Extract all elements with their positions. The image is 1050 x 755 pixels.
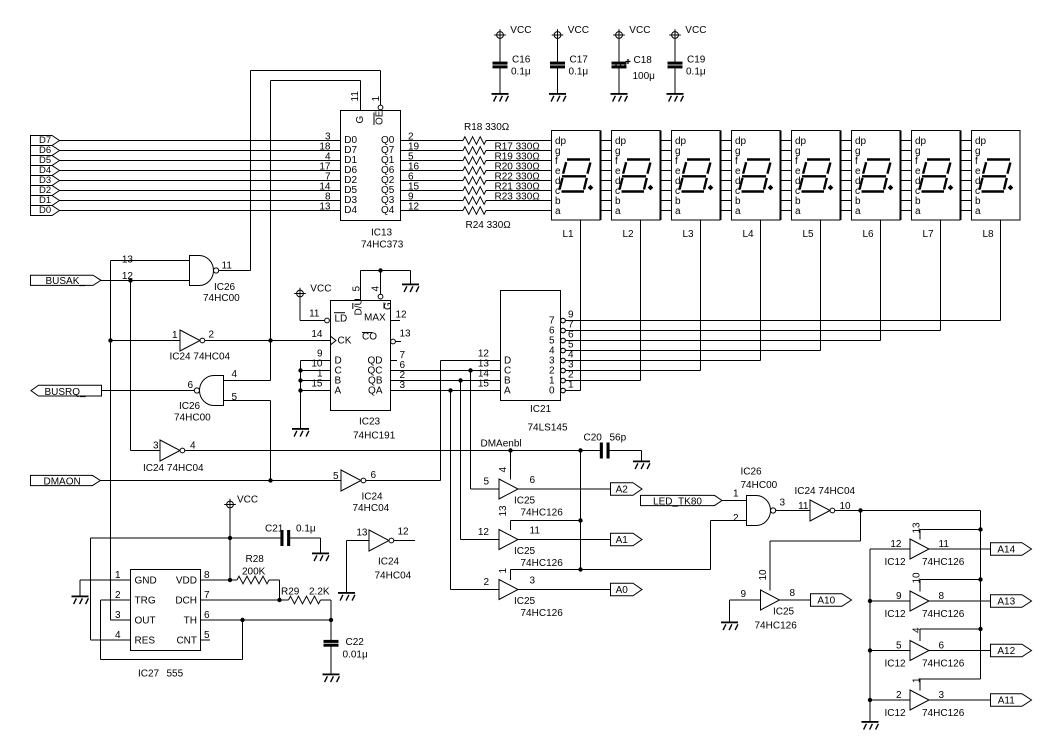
svg-text:OE: OE bbox=[374, 110, 385, 125]
svg-text:IC12: IC12 bbox=[885, 659, 907, 670]
svg-text:D/U: D/U bbox=[354, 298, 365, 315]
svg-text:VCC: VCC bbox=[510, 25, 531, 36]
svg-text:12: 12 bbox=[122, 271, 134, 282]
svg-text:C17: C17 bbox=[570, 55, 589, 66]
svg-text:74HC126: 74HC126 bbox=[521, 558, 564, 569]
svg-text:C19: C19 bbox=[687, 55, 706, 66]
svg-text:4: 4 bbox=[115, 630, 121, 641]
svg-text:9: 9 bbox=[896, 591, 902, 602]
svg-text:555: 555 bbox=[167, 669, 184, 680]
svg-text:CNT: CNT bbox=[176, 636, 197, 647]
svg-text:12: 12 bbox=[890, 539, 902, 550]
svg-text:VCC: VCC bbox=[568, 25, 589, 36]
svg-text:4: 4 bbox=[498, 467, 509, 473]
svg-text:13: 13 bbox=[319, 201, 331, 212]
svg-text:IC25: IC25 bbox=[514, 546, 536, 557]
svg-text:IC24 74HC04: IC24 74HC04 bbox=[170, 352, 231, 363]
svg-text:IC12: IC12 bbox=[885, 557, 907, 568]
svg-text:5: 5 bbox=[232, 392, 238, 403]
svg-text:2: 2 bbox=[733, 513, 739, 524]
svg-text:VCC: VCC bbox=[237, 495, 258, 506]
svg-text:12: 12 bbox=[396, 310, 408, 321]
svg-text:TRG: TRG bbox=[135, 596, 156, 607]
svg-text:D0: D0 bbox=[39, 205, 51, 216]
svg-text:13: 13 bbox=[498, 505, 509, 517]
svg-text:L6: L6 bbox=[863, 229, 875, 240]
svg-text:6: 6 bbox=[371, 470, 377, 481]
svg-text:15: 15 bbox=[311, 379, 323, 390]
svg-text:4: 4 bbox=[911, 627, 922, 633]
svg-text:74HC191: 74HC191 bbox=[353, 431, 396, 442]
svg-text:74HC126: 74HC126 bbox=[755, 621, 798, 632]
svg-text:G: G bbox=[355, 116, 366, 124]
svg-text:A1: A1 bbox=[616, 535, 629, 546]
svg-text:5: 5 bbox=[352, 286, 363, 292]
svg-text:L1: L1 bbox=[563, 229, 575, 240]
svg-text:74HC373: 74HC373 bbox=[361, 240, 404, 251]
svg-text:11: 11 bbox=[309, 309, 320, 320]
svg-text:74HC126: 74HC126 bbox=[922, 659, 965, 670]
svg-text:14: 14 bbox=[311, 329, 323, 340]
svg-text:13: 13 bbox=[356, 528, 368, 539]
svg-text:IC27: IC27 bbox=[138, 669, 160, 680]
svg-text:IC13: IC13 bbox=[371, 228, 393, 239]
svg-text:L3: L3 bbox=[683, 229, 695, 240]
svg-text:L4: L4 bbox=[743, 229, 755, 240]
svg-text:12: 12 bbox=[408, 201, 420, 212]
svg-text:1: 1 bbox=[371, 96, 382, 102]
svg-text:74HC126: 74HC126 bbox=[521, 508, 564, 519]
svg-text:8: 8 bbox=[939, 591, 945, 602]
svg-text:2.2K: 2.2K bbox=[309, 587, 330, 598]
svg-text:LD: LD bbox=[335, 314, 348, 325]
svg-text:R24 330Ω: R24 330Ω bbox=[466, 220, 512, 231]
svg-text:IC24 74HC04: IC24 74HC04 bbox=[795, 486, 856, 497]
svg-text:10: 10 bbox=[840, 501, 852, 512]
svg-text:TH: TH bbox=[184, 616, 197, 627]
svg-text:12: 12 bbox=[478, 527, 490, 538]
svg-text:A10: A10 bbox=[817, 596, 835, 607]
svg-text:74HC04: 74HC04 bbox=[353, 503, 390, 514]
svg-text:A13: A13 bbox=[997, 597, 1015, 608]
svg-text:2: 2 bbox=[115, 590, 121, 601]
svg-text:74HC126: 74HC126 bbox=[922, 708, 965, 719]
svg-text:A2: A2 bbox=[616, 485, 629, 496]
svg-text:VCC: VCC bbox=[310, 283, 331, 294]
svg-text:L7: L7 bbox=[923, 229, 935, 240]
svg-text:4: 4 bbox=[371, 286, 382, 292]
svg-text:5: 5 bbox=[483, 477, 489, 488]
svg-text:IC26: IC26 bbox=[214, 282, 236, 293]
svg-text:3: 3 bbox=[115, 610, 121, 621]
svg-text:1: 1 bbox=[911, 677, 922, 683]
svg-text:7: 7 bbox=[204, 590, 210, 601]
svg-text:6: 6 bbox=[530, 475, 536, 486]
svg-text:0: 0 bbox=[549, 386, 555, 397]
svg-text:10: 10 bbox=[911, 572, 922, 584]
svg-text:IC12: IC12 bbox=[885, 708, 907, 719]
svg-text:3: 3 bbox=[153, 441, 159, 452]
svg-text:15: 15 bbox=[478, 379, 490, 390]
svg-text:100μ: 100μ bbox=[633, 71, 656, 82]
svg-text:GND: GND bbox=[135, 576, 157, 587]
svg-text:6: 6 bbox=[187, 380, 193, 391]
svg-text:QA: QA bbox=[368, 386, 383, 397]
svg-text:74HC126: 74HC126 bbox=[521, 608, 564, 619]
svg-text:74HC00: 74HC00 bbox=[174, 413, 211, 424]
svg-text:6: 6 bbox=[939, 641, 945, 652]
svg-text:A11: A11 bbox=[998, 696, 1015, 707]
svg-text:74HC04: 74HC04 bbox=[375, 571, 412, 582]
svg-text:DMAenbl: DMAenbl bbox=[481, 439, 522, 450]
svg-text:VCC: VCC bbox=[629, 25, 650, 36]
svg-text:2: 2 bbox=[209, 330, 215, 341]
svg-text:L2: L2 bbox=[623, 229, 635, 240]
svg-text:L8: L8 bbox=[983, 229, 995, 240]
svg-text:DMAON: DMAON bbox=[44, 477, 81, 488]
svg-text:13: 13 bbox=[911, 522, 922, 534]
svg-text:R29: R29 bbox=[281, 587, 300, 598]
svg-text:74HC126: 74HC126 bbox=[922, 609, 965, 620]
svg-text:0.1μ: 0.1μ bbox=[569, 67, 589, 78]
svg-text:4: 4 bbox=[190, 441, 196, 452]
svg-text:1: 1 bbox=[498, 568, 509, 574]
svg-text:MAX: MAX bbox=[364, 313, 386, 324]
svg-text:5: 5 bbox=[333, 471, 339, 482]
svg-text:BUSAK_: BUSAK_ bbox=[46, 276, 86, 287]
svg-text:LED_TK80: LED_TK80 bbox=[653, 496, 702, 507]
svg-text:IC25: IC25 bbox=[514, 496, 536, 507]
svg-text:11: 11 bbox=[530, 526, 541, 537]
svg-text:CK: CK bbox=[338, 336, 352, 347]
svg-text:IC24: IC24 bbox=[378, 557, 400, 568]
svg-text:74HC00: 74HC00 bbox=[203, 293, 240, 304]
svg-text:12: 12 bbox=[398, 527, 410, 538]
svg-text:1: 1 bbox=[568, 379, 574, 390]
svg-text:A: A bbox=[335, 386, 342, 397]
svg-text:9: 9 bbox=[740, 589, 746, 600]
svg-text:C16: C16 bbox=[512, 55, 531, 66]
svg-text:Q4: Q4 bbox=[381, 205, 395, 216]
svg-text:1: 1 bbox=[115, 570, 121, 581]
svg-text:11: 11 bbox=[350, 91, 361, 102]
svg-text:11: 11 bbox=[222, 261, 233, 272]
svg-text:11: 11 bbox=[798, 501, 809, 512]
svg-text:IC25: IC25 bbox=[773, 607, 795, 618]
svg-text:L5: L5 bbox=[803, 229, 815, 240]
svg-text:0.1μ: 0.1μ bbox=[296, 524, 316, 535]
svg-text:IC26: IC26 bbox=[179, 401, 201, 412]
svg-text:0.1μ: 0.1μ bbox=[686, 67, 706, 78]
svg-text:13: 13 bbox=[400, 329, 412, 340]
svg-text:C21: C21 bbox=[265, 524, 284, 535]
svg-text:74LS145: 74LS145 bbox=[528, 423, 568, 434]
svg-text:0.01μ: 0.01μ bbox=[343, 650, 368, 661]
svg-text:RES: RES bbox=[135, 636, 156, 647]
svg-text:G: G bbox=[383, 302, 394, 310]
svg-text:IC25: IC25 bbox=[514, 596, 536, 607]
svg-text:A12: A12 bbox=[997, 646, 1015, 657]
svg-text:6: 6 bbox=[204, 610, 210, 621]
svg-text:4: 4 bbox=[232, 369, 238, 380]
svg-text:3: 3 bbox=[780, 498, 786, 509]
svg-text:VCC: VCC bbox=[685, 25, 706, 36]
svg-text:IC26: IC26 bbox=[741, 467, 763, 478]
svg-text:CO: CO bbox=[362, 332, 377, 343]
svg-text:A0: A0 bbox=[616, 585, 629, 596]
svg-text:10: 10 bbox=[758, 569, 769, 581]
svg-text:IC24: IC24 bbox=[362, 492, 384, 503]
svg-text:5: 5 bbox=[896, 641, 902, 652]
svg-text:C18: C18 bbox=[634, 55, 653, 66]
svg-text:R28: R28 bbox=[246, 554, 265, 565]
svg-text:2: 2 bbox=[896, 690, 902, 701]
svg-text:A14: A14 bbox=[997, 545, 1015, 556]
svg-text:C20: C20 bbox=[584, 433, 603, 444]
svg-text:IC12: IC12 bbox=[885, 609, 907, 620]
svg-text:A: A bbox=[504, 386, 511, 397]
svg-text:DCH: DCH bbox=[175, 596, 197, 607]
svg-text:74HC00: 74HC00 bbox=[741, 480, 778, 491]
svg-text:200K: 200K bbox=[242, 567, 266, 578]
svg-text:R18 330Ω: R18 330Ω bbox=[464, 122, 510, 133]
svg-text:3: 3 bbox=[400, 380, 406, 391]
svg-text:13: 13 bbox=[122, 255, 134, 266]
svg-text:11: 11 bbox=[939, 539, 950, 550]
svg-text:1: 1 bbox=[172, 330, 178, 341]
svg-text:8: 8 bbox=[790, 588, 796, 599]
svg-text:VDD: VDD bbox=[176, 576, 197, 587]
svg-text:R23 330Ω: R23 330Ω bbox=[495, 192, 541, 203]
svg-text:5: 5 bbox=[204, 630, 210, 641]
svg-text:IC21: IC21 bbox=[530, 404, 552, 415]
svg-text:3: 3 bbox=[939, 690, 945, 701]
svg-text:BUSRQ_: BUSRQ_ bbox=[45, 387, 87, 398]
svg-text:56p: 56p bbox=[610, 433, 627, 444]
svg-text:74HC126: 74HC126 bbox=[922, 557, 965, 568]
svg-text:D4: D4 bbox=[344, 205, 357, 216]
svg-text:IC24 74HC04: IC24 74HC04 bbox=[143, 463, 204, 474]
svg-text:OUT: OUT bbox=[135, 616, 156, 627]
svg-text:C22: C22 bbox=[346, 637, 365, 648]
svg-text:2: 2 bbox=[483, 577, 489, 588]
svg-text:8: 8 bbox=[204, 570, 210, 581]
svg-text:0.1μ: 0.1μ bbox=[511, 67, 531, 78]
svg-text:1: 1 bbox=[733, 489, 739, 500]
svg-text:IC23: IC23 bbox=[359, 417, 381, 428]
svg-text:3: 3 bbox=[530, 576, 536, 587]
